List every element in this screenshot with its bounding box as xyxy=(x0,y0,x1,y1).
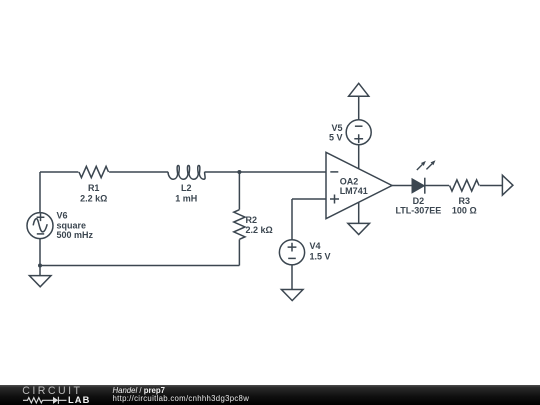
V5 minus sign xyxy=(355,125,363,127)
LED D2 triangle xyxy=(412,179,424,193)
wire V6 bottom lead xyxy=(39,239,41,266)
wire to op-amp non-inverting input xyxy=(292,198,326,200)
node junction bottom xyxy=(38,264,42,268)
svg-text:V5: V5 xyxy=(331,123,342,133)
power flag up arrow xyxy=(349,83,369,96)
svg-text:2.2 kΩ: 2.2 kΩ xyxy=(246,225,273,235)
V5 plus sign xyxy=(354,134,363,143)
op-amp plus input marker xyxy=(330,195,339,204)
voltage source V5 xyxy=(346,120,371,145)
svg-text:500 mHz: 500 mHz xyxy=(57,230,94,240)
wire op-amp V- to ground xyxy=(358,202,360,223)
footer title xyxy=(113,387,165,395)
svg-text:R1: R1 xyxy=(88,183,100,193)
LED light arrow 1 xyxy=(417,164,423,170)
V4 plus sign xyxy=(288,243,297,252)
node junction top xyxy=(237,170,241,174)
wire to ground xyxy=(39,266,41,276)
resistor R2 xyxy=(234,210,245,240)
CircuitLab logo text CIRCUIT xyxy=(22,386,82,396)
wire V5 to op-amp V+ xyxy=(358,145,360,169)
svg-text:1 mH: 1 mH xyxy=(175,193,197,203)
op-amp minus input marker xyxy=(330,171,338,173)
svg-text:OA2: OA2 xyxy=(340,176,359,186)
wire L2 to op-amp inverting input xyxy=(205,171,326,173)
wire junction to R2 xyxy=(238,172,240,210)
V6 minus sign xyxy=(37,233,44,235)
svg-text:V4: V4 xyxy=(310,241,321,251)
svg-text:100 Ω: 100 Ω xyxy=(452,206,477,216)
V4 minus sign xyxy=(288,257,296,259)
svg-text:5 V: 5 V xyxy=(329,133,343,143)
resistor R1 xyxy=(79,166,109,177)
svg-text:V6: V6 xyxy=(57,211,68,221)
svg-text:LM741: LM741 xyxy=(340,186,368,196)
wire R3 to output flag xyxy=(480,185,503,187)
op-amp OA2 xyxy=(326,152,392,218)
svg-text:2.2 kΩ: 2.2 kΩ xyxy=(80,193,107,203)
wire D2 to R3 xyxy=(425,185,449,187)
V6 plus sign xyxy=(37,213,45,221)
inductor L2 xyxy=(168,166,205,180)
resistor R3 xyxy=(450,180,480,191)
wire V4 bottom lead xyxy=(291,265,293,290)
voltage source V6 xyxy=(27,213,53,239)
LED light arrow 2 xyxy=(426,164,432,170)
wire R2 to bottom xyxy=(238,239,240,265)
LED D2 cathode bar xyxy=(424,178,426,194)
ground symbol V4 xyxy=(281,290,303,301)
logo resistor-diode glyph xyxy=(22,395,92,405)
svg-text:R3: R3 xyxy=(459,196,471,206)
svg-text:L2: L2 xyxy=(181,183,192,193)
svg-text:LTL-307EE: LTL-307EE xyxy=(395,206,441,216)
svg-text:square: square xyxy=(57,221,87,231)
ground symbol op-amp xyxy=(348,223,370,234)
svg-text:D2: D2 xyxy=(413,196,425,206)
voltage source V4 xyxy=(279,240,304,265)
svg-text:R2: R2 xyxy=(246,215,258,225)
footer bar xyxy=(0,385,540,405)
footer url xyxy=(113,395,250,403)
wire op-amp output to D2 xyxy=(392,185,412,187)
ground symbol left xyxy=(29,276,51,287)
wire R1 to L2 xyxy=(109,171,168,173)
logo text LAB xyxy=(68,396,90,405)
wire V4 top lead xyxy=(291,199,293,240)
wire V6 top lead xyxy=(39,172,41,213)
wire bottom rail xyxy=(40,265,239,267)
wire V6 top to R1 xyxy=(40,171,78,173)
wire flag to V5 xyxy=(358,96,360,120)
V6 sine waveform xyxy=(33,219,47,232)
output node flag xyxy=(502,175,513,195)
svg-text:1.5 V: 1.5 V xyxy=(310,252,331,262)
